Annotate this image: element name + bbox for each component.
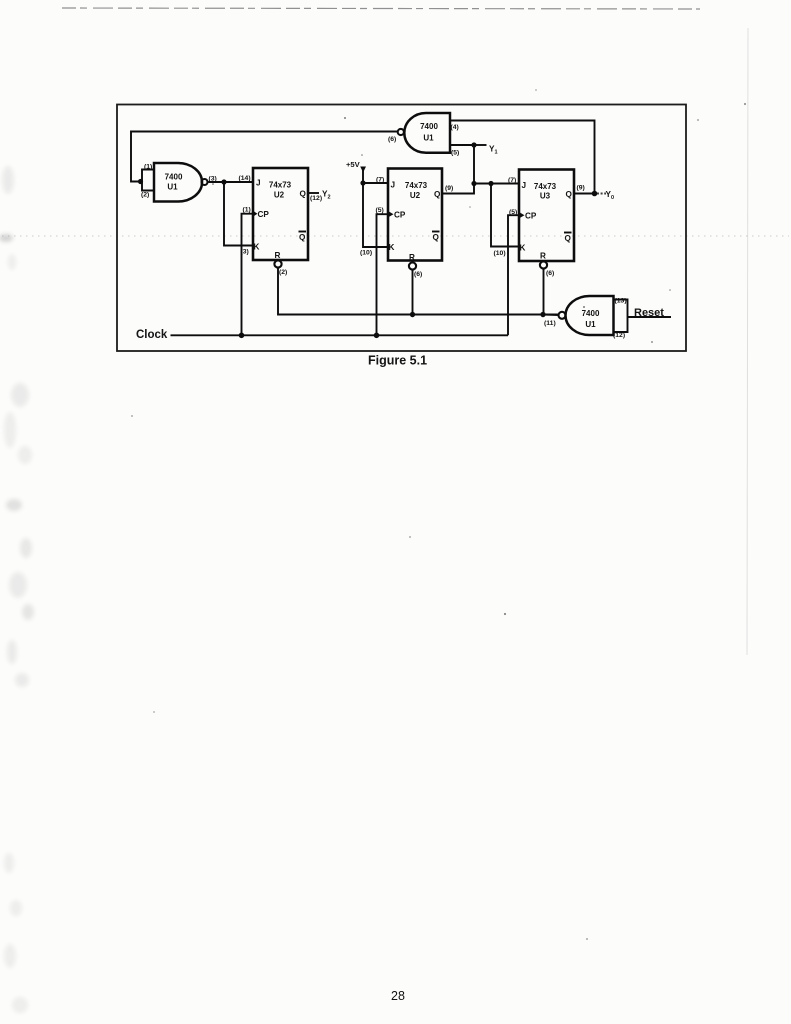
wire: FF2 Q right and up to Y1 node	[442, 145, 474, 194]
wire: U1b pin4 feedback from Y0	[450, 121, 595, 194]
bubble U1b output	[398, 129, 404, 135]
svg-text:K: K	[520, 244, 526, 253]
wire: to FF3 J	[474, 183, 519, 185]
node: junction U1a output	[221, 179, 226, 184]
svg-text:(10): (10)	[494, 250, 506, 257]
svg-text:Q: Q	[299, 233, 306, 242]
svg-text:74x73: 74x73	[269, 181, 292, 190]
node: FF3 R on reset line	[540, 312, 545, 317]
svg-text:(6): (6)	[546, 270, 554, 277]
svg-text:Reset: Reset	[634, 307, 664, 319]
svg-text:J: J	[391, 181, 396, 190]
bubble FF2 R	[409, 262, 416, 269]
node: Y1 junction under U1b pin5	[471, 142, 476, 147]
svg-text:(7): (7)	[508, 177, 516, 184]
wire: U1a input bracket	[142, 170, 154, 191]
node: clock to FF2 CP	[374, 333, 380, 339]
wire: FF2 R down to reset line	[412, 270, 414, 315]
svg-text:R: R	[409, 253, 415, 262]
svg-text:J: J	[522, 181, 527, 190]
wire: Reset input wire	[628, 316, 672, 318]
svg-text:(4): (4)	[451, 124, 459, 131]
svg-text:(12): (12)	[310, 195, 322, 202]
bubble FF3 R	[540, 261, 547, 268]
node: Y0 junction	[592, 191, 598, 197]
svg-text:U2: U2	[274, 191, 285, 200]
op-amp U1 gate D (7400 NAND, bottom right, mirrored)	[566, 296, 614, 335]
bubble U1d output	[559, 312, 566, 319]
wire: FF2 CP from clock line	[377, 214, 389, 335]
svg-text:(2): (2)	[141, 192, 149, 199]
wire: top-left feedback from U1b output to U1a inputs	[131, 132, 398, 182]
wire: FF3 J-K tie bracket	[491, 184, 519, 247]
wire: U1d output stub to reset line	[543, 314, 558, 317]
bubble U1a output	[202, 179, 208, 185]
wire: junction down to FF1 K	[224, 182, 253, 246]
FF1 CP wedge	[253, 211, 258, 217]
op-amp U1 gate B (7400 NAND, top, mirrored)	[404, 113, 450, 153]
svg-text:U1: U1	[585, 320, 596, 329]
horizontal scan artifact dotted line	[2, 235, 789, 237]
svg-text:CP: CP	[525, 212, 537, 221]
svg-text:(6): (6)	[388, 136, 396, 143]
flip-flop U2 (FF2) box	[388, 169, 442, 261]
svg-text:(1): (1)	[144, 164, 152, 171]
wire: Y1 stub	[474, 144, 487, 146]
node: branch to FF3 J	[471, 181, 476, 186]
svg-text:(5): (5)	[451, 150, 459, 157]
node: junction at U1a input tie	[138, 179, 143, 184]
node: FF2 R on reset line	[410, 312, 415, 317]
svg-text:(10): (10)	[360, 250, 372, 257]
wire: U1d input bracket	[614, 300, 628, 333]
wire: FF3 R down to reset line	[543, 269, 545, 315]
svg-text:CP: CP	[258, 210, 270, 219]
svg-text:(6): (6)	[414, 271, 422, 278]
wire: FF1 CP from clock line	[242, 214, 254, 336]
node: FF3 J-K tie	[488, 181, 493, 186]
svg-text:28: 28	[391, 989, 405, 1003]
svg-text:(9): (9)	[577, 185, 585, 192]
svg-text:R: R	[540, 252, 546, 261]
svg-text:Clock: Clock	[136, 329, 168, 341]
wire: +5V rail to FF2 J and K	[363, 167, 388, 247]
svg-text:J: J	[256, 179, 261, 188]
wire: FF1 Q stub	[308, 192, 319, 194]
scattered specks	[131, 89, 746, 940]
svg-text:Q: Q	[433, 233, 440, 242]
svg-text:(14): (14)	[239, 175, 251, 182]
svg-text:U3: U3	[540, 192, 551, 201]
svg-text:Figure 5.1: Figure 5.1	[368, 354, 427, 368]
wire: FF1 R down to reset line	[278, 268, 558, 315]
node: clock to FF1 CP	[239, 333, 245, 339]
svg-text:7400: 7400	[420, 122, 438, 131]
svg-text:+5V: +5V	[346, 160, 361, 169]
svg-text:(2): (2)	[279, 269, 287, 276]
svg-text:74x73: 74x73	[405, 181, 428, 190]
svg-text:74x73: 74x73	[534, 182, 557, 191]
svg-text:K: K	[254, 243, 260, 252]
svg-text:7400: 7400	[582, 309, 600, 318]
svg-text:Q: Q	[565, 234, 572, 243]
flip-flop U2 (FF1) box	[253, 168, 308, 260]
wire: Y0 faint stub	[597, 193, 606, 195]
wire: U1a output to FF1 J	[208, 181, 253, 183]
svg-text:Q: Q	[300, 190, 307, 199]
wire: clock line	[171, 334, 509, 336]
wire: U1b pin5 stub	[450, 144, 474, 146]
page top scan artifact	[62, 8, 700, 9]
svg-text:CP: CP	[394, 211, 406, 220]
svg-text:Q: Q	[434, 190, 441, 199]
svg-text:(1): (1)	[243, 207, 251, 214]
svg-text:K: K	[389, 243, 395, 252]
flip-flop U3 (FF3) box	[519, 170, 574, 262]
svg-text:U1: U1	[167, 183, 178, 192]
wire: FF3 CP from clock line end	[508, 215, 519, 335]
svg-text:R: R	[275, 251, 281, 260]
op-amp U1 gate A (7400 NAND, left)	[154, 163, 202, 202]
frame border	[117, 105, 686, 352]
wire: FF3 Q to Y0 node	[574, 193, 595, 195]
svg-text:(12): (12)	[613, 332, 625, 339]
left margin scan speckles	[0, 166, 34, 1013]
svg-text:Q: Q	[566, 190, 573, 199]
svg-text:U1: U1	[423, 134, 434, 143]
svg-text:(9): (9)	[445, 185, 453, 192]
svg-text:(5): (5)	[376, 207, 384, 214]
svg-text:(7): (7)	[376, 177, 384, 184]
svg-text:7400: 7400	[165, 173, 183, 182]
right margin scan line	[747, 28, 748, 655]
bubble FF1 R	[274, 260, 281, 267]
svg-text:(11): (11)	[544, 320, 556, 327]
svg-text:U2: U2	[410, 191, 421, 200]
